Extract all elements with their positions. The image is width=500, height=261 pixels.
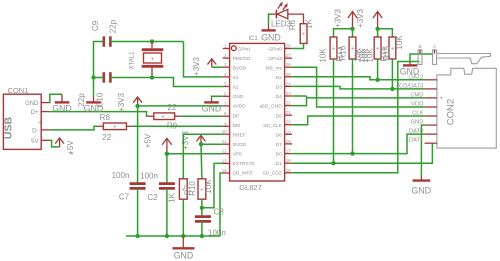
svg-text:X2: X2: [233, 85, 239, 91]
svg-text:10K: 10K: [365, 48, 374, 63]
svg-text:GPio3: GPio3: [268, 56, 282, 62]
wire D4 stub link: [292, 95, 306, 97]
wire EXTRSTZ net from pin 13: [202, 163, 223, 207]
svg-text:+: +: [440, 96, 444, 102]
wire C2 bottom to rail: [166, 188, 168, 236]
svg-text:AVDD: AVDD: [233, 104, 247, 110]
junction reset node (R10/C8/EXTRSTZ): [200, 206, 204, 210]
svg-text:CON2: CON2: [446, 99, 457, 125]
junction AVDD node: [135, 104, 139, 108]
svg-text:C8: C8: [214, 208, 225, 217]
junction rail C8: [200, 234, 204, 238]
svg-text:+3V3: +3V3: [333, 8, 342, 27]
wire VP5 node down to C2: [166, 154, 168, 183]
svg-text:VP5: VP5: [233, 152, 242, 158]
svg-text:+3V3: +3V3: [192, 56, 201, 75]
svg-text:GND: GND: [174, 251, 194, 261]
ground GND (bottom rail): [173, 236, 195, 261]
svg-text:100n: 100n: [140, 172, 158, 181]
ground GND (USB): [52, 94, 72, 113]
supply +3V3 (AVDD pin7): [117, 92, 142, 111]
wire C7 bottom to rail: [137, 188, 139, 236]
ground GND (crystal): [84, 96, 104, 114]
svg-text:DAT1: DAT1: [409, 138, 423, 144]
pin numbers IC1 left: [222, 44, 227, 174]
pin names IC1 left column: [233, 46, 255, 176]
svg-text:GND: GND: [84, 104, 104, 114]
svg-text:SD_CMD: SD_CMD: [262, 104, 283, 110]
svg-text:PMOSO: PMOSO: [233, 56, 251, 62]
svg-text:+: +: [38, 121, 42, 127]
svg-text:C2: C2: [147, 193, 158, 202]
wire SD_CMD step: [292, 96, 306, 106]
pin stubs IC1 left 1-14: [223, 49, 230, 174]
wire R10 bottom to C8 node: [201, 199, 203, 216]
svg-text:+3V3: +3V3: [117, 92, 126, 111]
svg-text:B: B: [418, 44, 421, 49]
svg-text:DVDD: DVDD: [233, 142, 247, 148]
junction CD/DAT3 pull-up: [390, 87, 394, 91]
svg-text:+: +: [302, 32, 306, 38]
pin stubs CON2: [425, 80, 437, 143]
svg-text:IC1: IC1: [248, 36, 258, 42]
wire R8 to DM pin9: [132, 125, 223, 127]
junction XTAL1 bottom node: [150, 75, 154, 79]
resistor R9 22: [147, 103, 180, 130]
svg-text:R10: R10: [188, 181, 197, 196]
svg-text:GND: GND: [233, 94, 244, 100]
svg-text:100n: 100n: [112, 171, 130, 180]
ground GND (CON2): [411, 176, 431, 196]
wire R7 bottom to rail: [182, 199, 184, 236]
svg-text:R15: R15: [382, 45, 391, 60]
svg-text:D-: D-: [32, 129, 38, 135]
wire AVDD net to pin 7: [138, 105, 223, 107]
resistor R16 10K: [338, 37, 367, 63]
svg-text:C9: C9: [91, 20, 100, 31]
ground GND (LED): [261, 24, 281, 43]
capacitor C10 22p: [77, 72, 110, 107]
wire DVDD net to pin 11: [201, 143, 223, 145]
resistor R10 10K: [188, 179, 213, 199]
svg-text:20: 20: [286, 120, 291, 125]
svg-text:DP: DP: [233, 113, 240, 119]
supply +5V (VP5): [144, 133, 172, 154]
svg-text:10K: 10K: [204, 179, 213, 194]
crystal XTAL1: [130, 42, 164, 78]
svg-text:DVDD: DVDD: [233, 65, 247, 71]
svg-text:GND: GND: [411, 186, 431, 196]
svg-text:13: 13: [222, 158, 227, 163]
svg-text:+: +: [259, 105, 263, 111]
wire R15 bottom to CD/DAT3 line: [391, 59, 393, 89]
svg-text:12: 12: [222, 149, 227, 154]
svg-text:16: 16: [286, 158, 291, 163]
svg-text:10: 10: [222, 129, 227, 134]
wire C8 bottom to rail: [201, 221, 203, 236]
pin CON1.D+ stub: [41, 111, 49, 113]
card detect contact B: [418, 44, 422, 64]
svg-text:22: 22: [286, 101, 291, 106]
pin names IC1 right column: [262, 46, 283, 176]
junction rail R7: [181, 234, 185, 238]
svg-text:SD_WPZ: SD_WPZ: [233, 171, 253, 177]
wire +3V3 to pin 3: [212, 66, 223, 68]
wire pin 6 to ground: [212, 96, 223, 98]
pin numbers IC1 right: [286, 44, 291, 173]
svg-text:EXTRSTZ: EXTRSTZ: [233, 161, 255, 167]
svg-text:R16: R16: [338, 45, 347, 60]
svg-text:+: +: [70, 152, 74, 158]
junction rail C2: [165, 234, 169, 238]
wire pair1 bridge: [334, 29, 353, 37]
supply +3V3 (DVDD pin3): [192, 56, 216, 75]
svg-text:GL827: GL827: [239, 183, 262, 192]
svg-text:SD_CDZ: SD_CDZ: [263, 171, 282, 177]
junction DAT2 pull-up: [375, 78, 379, 82]
wire CON2 GND pin to ground: [421, 125, 424, 176]
svg-text:11: 11: [222, 139, 227, 144]
svg-text:GND: GND: [25, 101, 39, 107]
wire CMD line to CON2: [307, 97, 425, 99]
svg-text:18: 18: [286, 139, 291, 144]
svg-text:15: 15: [286, 168, 291, 173]
svg-text:24: 24: [286, 81, 291, 86]
junction D0 pull-up: [350, 151, 354, 155]
junction DVDD node: [199, 142, 203, 146]
svg-text:+: +: [161, 115, 165, 121]
svg-text:GPio1: GPio1: [238, 46, 252, 52]
svg-text:25: 25: [286, 72, 291, 77]
supply +5V (USB): [55, 138, 75, 155]
wire VP5 net to pin 12: [167, 153, 223, 155]
junction pair2 +3V3 node: [375, 27, 379, 31]
wire C9 right to X1 net: [110, 41, 183, 43]
svg-text:GND: GND: [261, 33, 281, 43]
svg-text:1K: 1K: [168, 192, 177, 202]
wire R6 bottom to pin 28: [292, 43, 303, 48]
capacitor C8 100n: [195, 208, 226, 238]
pin stubs IC1 right 28-15: [285, 49, 293, 173]
svg-text:23: 23: [286, 91, 291, 96]
svg-text:CON1: CON1: [8, 86, 29, 95]
junction rail C7: [135, 234, 139, 238]
op-amp U1 IC1 GL827 body: [230, 36, 285, 192]
wire C9 left to ground rail: [94, 42, 104, 78]
svg-text:22p: 22p: [109, 19, 118, 33]
wire USB GND hook: [49, 94, 62, 102]
svg-text:5V: 5V: [31, 139, 38, 145]
svg-text:10K: 10K: [395, 35, 404, 50]
resistor R14 10K: [361, 37, 388, 63]
junction XTAL1 top node: [150, 39, 154, 43]
svg-text:22: 22: [102, 133, 111, 142]
wire AVDD node down to C7: [137, 106, 139, 183]
svg-text:22: 22: [168, 103, 177, 112]
wire LED anode to ground: [269, 14, 272, 24]
svg-text:26: 26: [286, 62, 291, 67]
svg-text:D4: D4: [276, 94, 282, 100]
wire R14 bottom to DAT2 line: [377, 59, 379, 80]
svg-text:R6: R6: [288, 19, 297, 30]
junction VP5 node: [165, 152, 169, 156]
supply +3V3 (pull-up pair 1): [333, 8, 357, 28]
svg-text:D2: D2: [276, 75, 282, 81]
svg-text:DAT0: DAT0: [409, 129, 423, 135]
svg-text:+: +: [113, 125, 117, 131]
wire SD_WPZ net from pin 14: [220, 173, 223, 236]
wire D0 to CON2 DAT0: [292, 134, 425, 154]
svg-text:17: 17: [286, 149, 291, 154]
svg-text:VDD: VDD: [411, 102, 423, 108]
wire SD_CDZ to card detect: [292, 62, 420, 173]
pin CON1.5V stub: [41, 139, 49, 141]
supply +3V3 (DVDD pin11): [181, 130, 205, 149]
svg-text:27: 27: [286, 53, 291, 58]
wire DVDD node down to R10: [200, 144, 203, 179]
wire RREF net from pin 10: [183, 134, 222, 179]
svg-text:DM: DM: [233, 123, 240, 129]
capacitor C7 100n: [112, 171, 146, 202]
wire C10 to ground: [93, 78, 95, 96]
svg-text:GPio0: GPio0: [268, 46, 282, 52]
wire R16 bottom to D0 line: [352, 59, 354, 154]
svg-text:28: 28: [286, 44, 291, 49]
ground GND (IC pin6): [202, 98, 222, 113]
svg-text:+: +: [151, 57, 155, 63]
svg-text:MS_ins: MS_ins: [266, 65, 283, 71]
wire X2 net: [110, 78, 222, 87]
svg-text:XTAL1: XTAL1: [130, 51, 136, 70]
svg-text:10K: 10K: [319, 48, 328, 63]
wire ground rail: [126, 235, 220, 237]
wire R9 to DP pin8: [180, 115, 223, 117]
resistor R15 10K: [382, 35, 404, 61]
resistor R7 1K: [168, 179, 193, 203]
wire D2 to CON2 DAT2: [292, 77, 425, 80]
capacitor C9 22p: [91, 19, 118, 47]
svg-text:R8: R8: [100, 113, 111, 122]
svg-text:21: 21: [286, 110, 291, 115]
wire X1 net to pin 4: [184, 42, 223, 77]
svg-text:GND: GND: [202, 104, 222, 114]
capacitor C2 100n: [140, 172, 175, 202]
connector CON2 card detect lever: [437, 54, 490, 64]
svg-text:D0: D0: [276, 152, 282, 158]
svg-text:C7: C7: [119, 193, 130, 202]
svg-text:USB: USB: [3, 116, 15, 139]
svg-text:X1: X1: [233, 75, 239, 81]
connector CON2 SD card body: [437, 68, 496, 148]
wire D3 to CON2 CD/DAT3: [292, 86, 425, 89]
svg-text:RREF: RREF: [233, 132, 246, 138]
svg-text:D6: D6: [276, 132, 282, 138]
svg-text:DAT2: DAT2: [409, 74, 423, 80]
card detect contact A: [433, 44, 437, 64]
resistor R13 10K: [319, 37, 344, 63]
resistor R6 1K: [288, 18, 314, 43]
svg-text:D1: D1: [276, 161, 282, 167]
svg-text:+3V3: +3V3: [181, 130, 190, 149]
wire D- net: [49, 126, 97, 130]
supply +3V3 (pull-up pair 2): [356, 8, 382, 28]
connector CON1 (USB): [3, 86, 43, 149]
junction D1 pull-up: [331, 161, 335, 165]
svg-text:1K: 1K: [305, 18, 314, 28]
LED LED3: [271, 3, 293, 28]
wire D+ net: [49, 112, 146, 117]
svg-text:D5: D5: [276, 113, 282, 119]
pin CON1.D- stub: [41, 129, 49, 131]
pin CON1.GND stub: [41, 102, 49, 104]
svg-text:+5V: +5V: [144, 133, 153, 148]
wire card detect A to ground: [410, 54, 433, 62]
junction pair1 +3V3 node: [350, 27, 354, 31]
resistor R8 22: [98, 113, 132, 142]
svg-text:+3V3: +3V3: [356, 8, 365, 27]
pin names CON2: [399, 74, 424, 143]
svg-text:SD_CLK: SD_CLK: [263, 123, 282, 129]
svg-text:D3: D3: [276, 85, 282, 91]
wire SD_CLK to CON2 CLK: [292, 116, 425, 125]
wire R13 bottom to D1 line: [333, 59, 335, 163]
junction C10 left node: [91, 75, 95, 79]
svg-text:CLK: CLK: [412, 111, 423, 117]
svg-text:D+: D+: [31, 110, 39, 116]
wire MS_ins to CON2 VDD: [292, 67, 425, 107]
wire D1 to CON2 DAT1: [292, 143, 432, 163]
svg-text:14: 14: [222, 168, 227, 173]
svg-text:CMD: CMD: [410, 92, 423, 98]
svg-text:D7: D7: [276, 142, 282, 148]
svg-text:19: 19: [286, 129, 291, 134]
ground GND (card detect): [400, 62, 420, 77]
wire C10 left lead: [94, 77, 104, 79]
svg-text:CD/DAT3: CD/DAT3: [399, 83, 423, 89]
wire pair2 bridge: [378, 29, 393, 37]
wire LED cathode to R6: [293, 14, 304, 19]
svg-text:GND: GND: [411, 120, 424, 126]
wire USB 5V net: [49, 140, 59, 147]
